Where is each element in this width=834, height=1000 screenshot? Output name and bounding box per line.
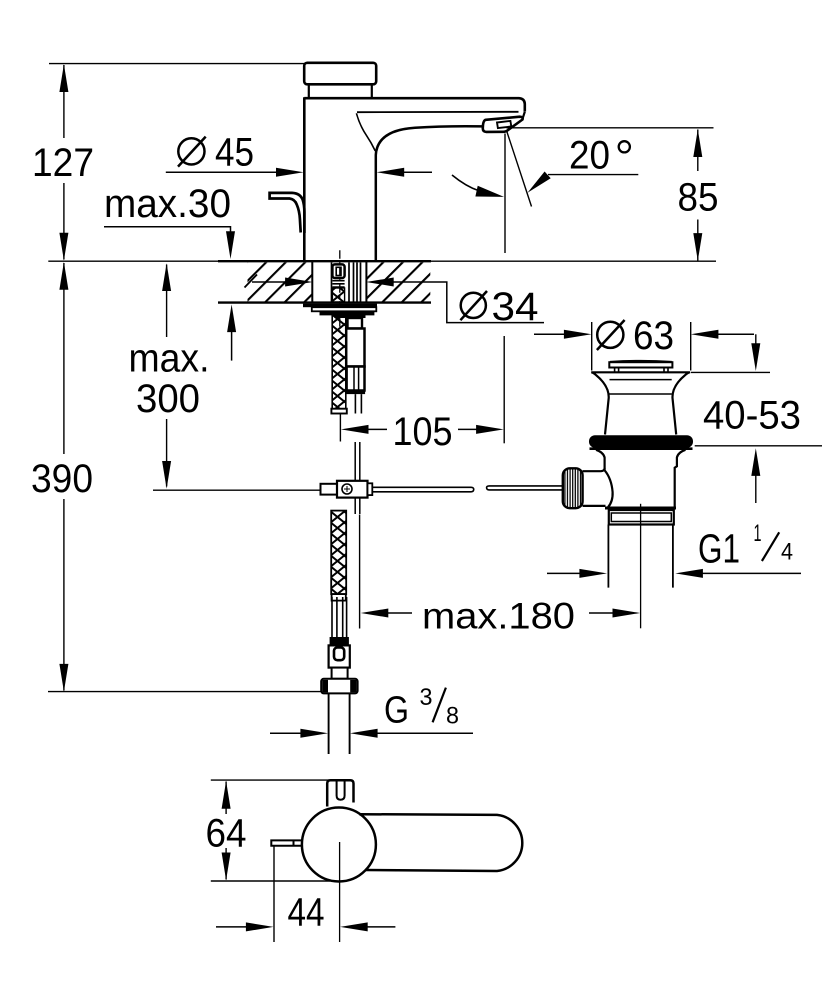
deck break mark left	[245, 275, 258, 288]
telescoping tube section 1	[348, 318, 363, 329]
dim 64 arrow down	[222, 853, 231, 881]
svg-text:1: 1	[754, 520, 762, 547]
thread box outer	[609, 510, 674, 525]
svg-text:45: 45	[215, 131, 254, 175]
dim max180 right arrow	[613, 609, 641, 618]
top view tab slot housing	[327, 780, 353, 806]
connector step	[332, 668, 348, 679]
tee right nub	[368, 483, 373, 495]
braided hose lower	[331, 511, 346, 594]
shank tube lines	[332, 263, 361, 303]
vertical rod above tee	[355, 442, 360, 514]
spout right end cut	[522, 112, 524, 119]
dim max180 left extension	[359, 515, 361, 629]
dim 20deg degree symbol	[619, 141, 630, 152]
tee left stub	[321, 484, 338, 495]
dim dia45 right arrow	[377, 168, 405, 177]
knurled knob	[563, 468, 583, 508]
hex nut left facet	[322, 680, 328, 693]
waste flare trumpet	[591, 372, 690, 434]
dim 40-53 bottom arrow	[755, 475, 757, 503]
dim 40-53 top reference	[691, 371, 770, 373]
braided hose upper	[332, 315, 346, 409]
dim max300 arrow up	[162, 263, 171, 291]
horizontal rod segment 2	[487, 486, 563, 490]
plug disc feet	[615, 368, 668, 372]
spout second edge line	[357, 111, 519, 113]
svg-text:34: 34	[492, 285, 539, 329]
dim 64 top reference	[211, 779, 336, 781]
deck section bottom edge	[218, 301, 431, 303]
dim G1 1/4 arrows	[547, 572, 580, 574]
dim 20deg leader	[548, 174, 638, 176]
dim dia34 symbol	[461, 293, 486, 318]
connector slot	[334, 647, 344, 660]
faucet cap	[304, 63, 376, 85]
svg-text:127: 127	[32, 141, 94, 185]
faucet neck	[309, 84, 372, 97]
deck hole arrow left	[285, 278, 313, 287]
mounting screw head	[332, 264, 344, 278]
spout nozzle beak	[483, 117, 523, 132]
tube 3 inner rod lines	[354, 367, 359, 391]
dim 390 bottom reference line	[48, 691, 321, 693]
dim max300 line	[166, 265, 168, 487]
svg-text:85: 85	[678, 176, 719, 220]
water stream 20deg line	[507, 131, 532, 207]
swivel arc arrowhead	[475, 186, 504, 197]
hose ferrule	[332, 594, 346, 601]
dim dia63 extension right	[690, 322, 692, 371]
svg-text:G1: G1	[698, 526, 740, 572]
dim 390 arrow up	[59, 262, 68, 290]
dim dia63 extension left	[591, 322, 593, 371]
threaded stud crosshatch	[332, 288, 344, 302]
tee screw cross	[344, 486, 350, 492]
top view left tab	[271, 840, 302, 845]
drain centreline	[640, 504, 642, 629]
svg-text:max.30: max.30	[104, 182, 231, 226]
waste body bottom edge	[605, 507, 676, 510]
svg-text:300: 300	[136, 377, 200, 421]
flare inner line 2	[610, 393, 672, 395]
dim 40-53 top arrow	[755, 334, 757, 344]
svg-text:8: 8	[446, 702, 459, 729]
dim dia63 left segment	[534, 333, 565, 335]
svg-text:105: 105	[393, 410, 453, 454]
dim max30 arrow up below deck	[227, 304, 236, 332]
hex nut right facet	[350, 680, 356, 693]
faucet centreline	[339, 250, 341, 332]
svg-text:4: 4	[781, 539, 793, 566]
dim 64 line	[225, 782, 227, 880]
tee screw circle	[342, 484, 352, 494]
knob stem	[583, 468, 606, 506]
rubber gasket	[589, 435, 693, 447]
connector black band	[330, 637, 349, 645]
svg-text:390: 390	[31, 457, 93, 501]
svg-text:max.180: max.180	[422, 596, 575, 637]
plug disc top	[610, 361, 672, 362]
pull rod lower stub	[355, 394, 361, 413]
dim 64 bottom reference	[211, 880, 330, 882]
svg-text:3: 3	[420, 684, 433, 711]
telescoping tube section 2	[346, 329, 364, 367]
dim 64 arrow up	[222, 781, 231, 809]
dim max180 left arrow	[361, 609, 389, 618]
dim dia45 symbol	[178, 138, 204, 164]
connector tube	[332, 597, 347, 637]
svg-text:64: 64	[206, 811, 247, 855]
dim 20deg arrowhead	[528, 172, 551, 193]
svg-text:G: G	[384, 689, 409, 731]
top view body circle	[302, 808, 376, 882]
dim max30 leader	[104, 227, 231, 232]
dia34 leader	[393, 282, 544, 323]
flare inner line 1	[610, 379, 672, 381]
screw slot	[336, 267, 341, 275]
dim 85 line	[697, 130, 699, 261]
deck hatch left band	[248, 263, 313, 302]
dim max300 arrow down	[162, 461, 171, 489]
dim 105 arrow left	[341, 425, 369, 434]
svg-text:20: 20	[569, 134, 610, 178]
deck section top edge	[218, 260, 431, 262]
clamp plate black	[320, 311, 375, 318]
dim 44 right arrow	[340, 922, 368, 931]
drain pipe	[608, 525, 673, 588]
spout top edge	[304, 98, 525, 111]
swivel arc	[452, 175, 479, 191]
dim G3/8 arrows	[270, 732, 301, 734]
dim 127 line	[63, 65, 65, 260]
top view tab slot	[337, 782, 345, 800]
dim 85 arrow down	[693, 233, 702, 261]
dim 390 arrow down	[59, 664, 68, 692]
faucet body left edge	[303, 97, 306, 261]
dim dia45 arrow right	[276, 168, 304, 177]
thread box inner	[611, 513, 671, 522]
dim 105 right extension	[503, 336, 505, 443]
temperature lever	[270, 192, 305, 234]
deck hole right edge	[365, 261, 367, 302]
dim dia63 symbol	[597, 322, 623, 348]
connector block	[329, 645, 350, 667]
washer bar white	[312, 307, 377, 311]
dim 85 arrow up	[693, 129, 702, 157]
dim 44 left extension	[273, 847, 275, 943]
top reference line	[49, 63, 306, 65]
dim dia45 right tail	[404, 171, 432, 173]
dim 105 arrow right	[476, 425, 504, 434]
tube end black collar	[346, 391, 366, 395]
nozzle aerator slot	[497, 121, 511, 128]
dim 44 left arrow	[216, 926, 247, 928]
deck reference line	[48, 260, 716, 262]
dim max30 arrow down	[226, 231, 235, 259]
spout-body fillet curve	[356, 113, 375, 151]
dim 390 line	[63, 263, 65, 691]
supply pipe	[329, 694, 350, 754]
dim 127 arrow up	[59, 64, 68, 92]
svg-text:44: 44	[288, 891, 325, 935]
hex nut	[321, 679, 357, 694]
dim dia45 leader line	[166, 171, 278, 173]
svg-text:63: 63	[633, 314, 674, 358]
top view centreline	[339, 842, 341, 942]
screw nut lines	[332, 281, 344, 287]
dim 40-53 bottom reference	[695, 445, 822, 447]
dim 127 arrow down	[59, 233, 68, 261]
flange under gasket	[590, 447, 693, 450]
deck hole left edge	[311, 261, 313, 302]
dim dia63 right segment	[718, 333, 754, 335]
tee body	[337, 481, 368, 498]
deck hatch right band	[367, 263, 431, 302]
svg-text:40-53: 40-53	[703, 394, 801, 438]
deck hole arrow right	[366, 278, 394, 287]
top view lever	[359, 814, 522, 871]
spray angle reference line	[506, 127, 713, 129]
horizontal reference line to tee	[153, 489, 321, 491]
waste body housing arc	[605, 470, 613, 507]
svg-text:max.: max.	[129, 337, 210, 381]
horizontal rod segment 1	[372, 487, 473, 492]
dim 105 left extension	[339, 414, 341, 442]
washer bar dark	[303, 304, 377, 308]
telescoping tube section 3	[347, 367, 365, 391]
water stream vertical line	[504, 134, 506, 254]
hose end cap	[331, 409, 346, 414]
faucet body right edge and spout underside sweep	[376, 126, 484, 261]
